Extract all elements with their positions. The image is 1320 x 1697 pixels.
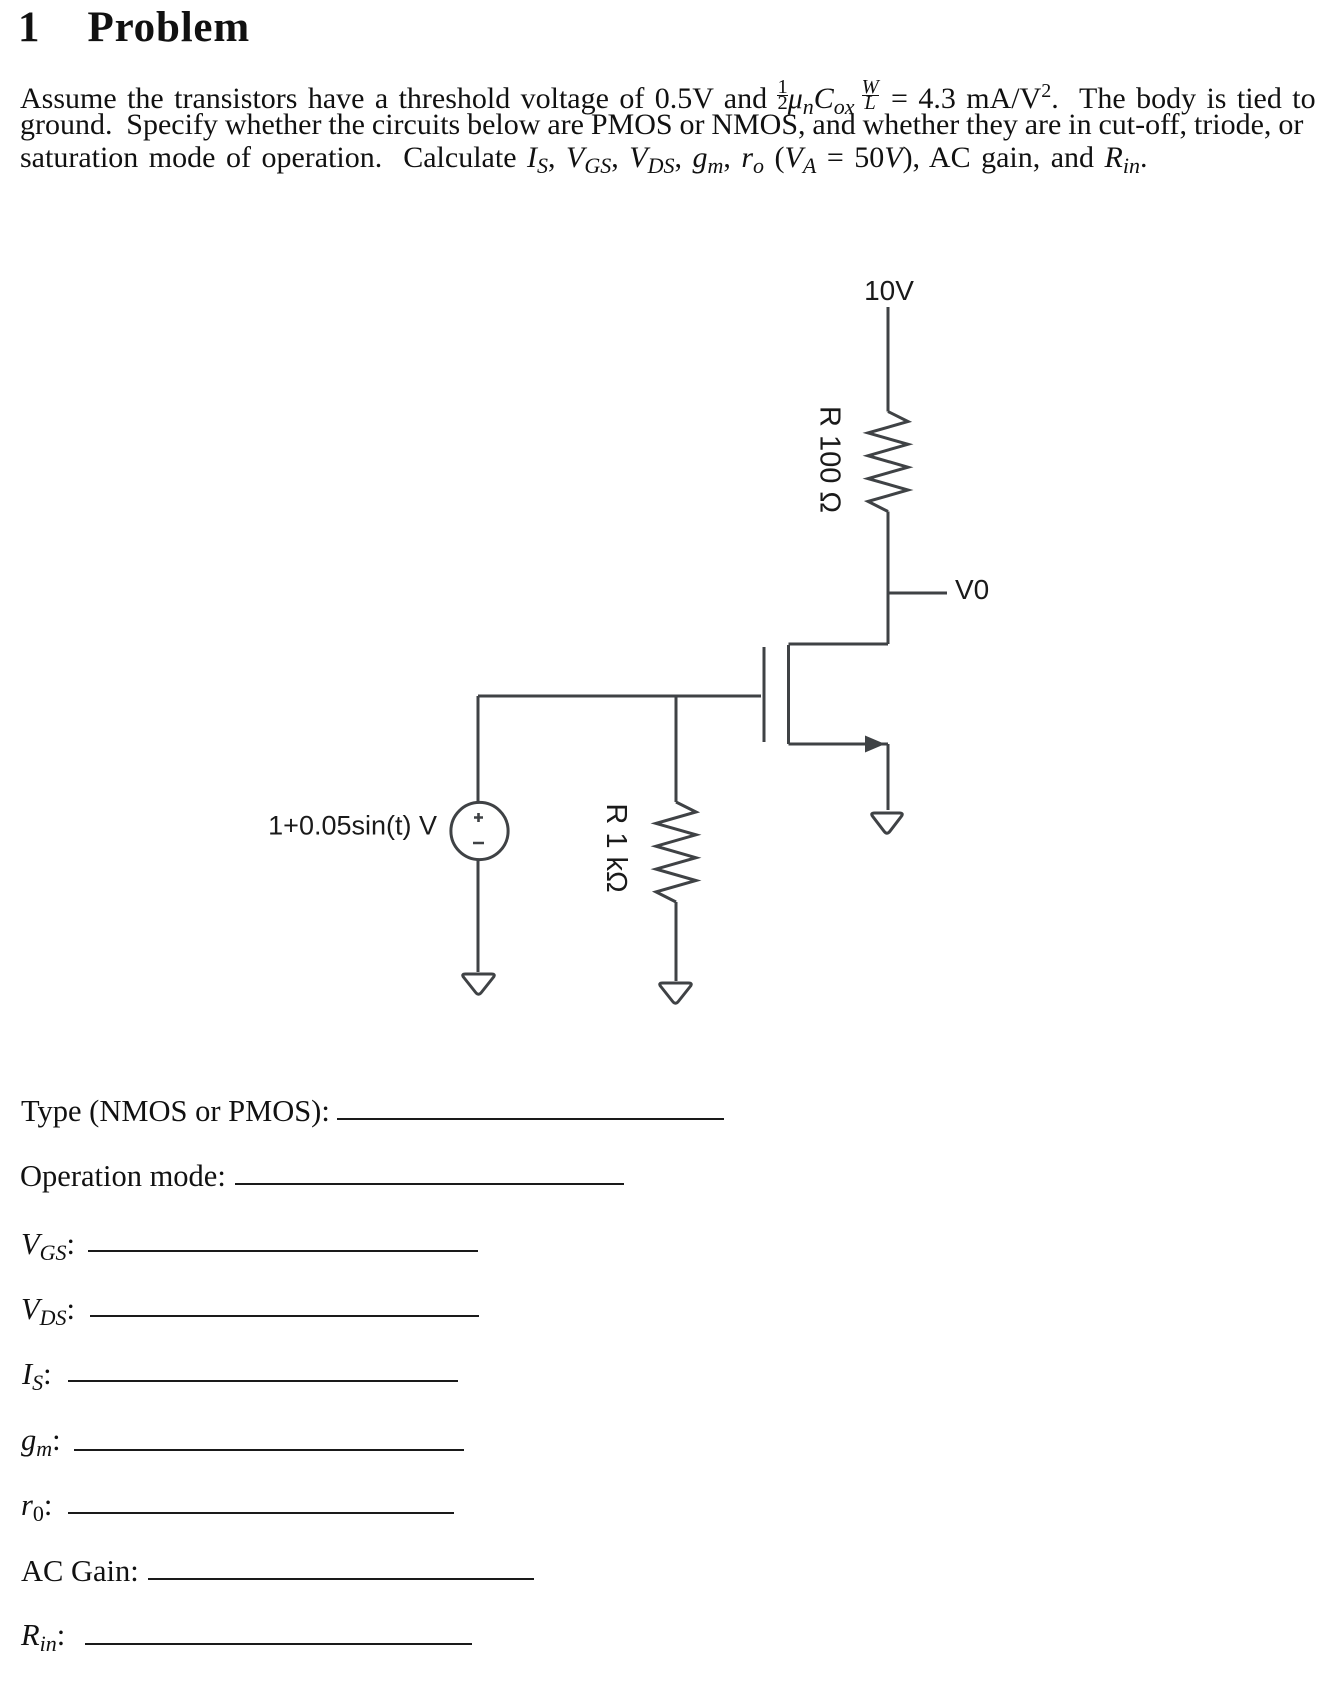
resistor R1 zigzag (R 100 ohm) xyxy=(868,412,908,512)
wire source down xyxy=(887,744,890,810)
wire gate junction down to R2 xyxy=(675,696,678,802)
svg-text:V0: V0 xyxy=(955,574,989,605)
resistor R2 zigzag (R 1 kohm) xyxy=(656,802,696,902)
wire R2 bottom xyxy=(675,902,678,981)
voltage source V1 plus sign xyxy=(474,813,483,822)
paragraph line 2 xyxy=(20,108,1303,142)
answer row: gm xyxy=(21,1425,61,1464)
svg-text:R 1 kΩ: R 1 kΩ xyxy=(600,803,632,892)
answer row: VDS xyxy=(21,1294,75,1333)
wire gate lead xyxy=(478,695,761,698)
paragraph line 1 xyxy=(20,74,1316,124)
answer row: IS xyxy=(22,1359,52,1398)
node V0 tick wire xyxy=(888,592,947,595)
voltage source V1 minus sign xyxy=(473,842,484,845)
ground under V1 xyxy=(463,974,495,994)
svg-text:1+0.05sin(t) V: 1+0.05sin(t) V xyxy=(268,811,437,841)
transistor M1 channel bar xyxy=(787,645,790,744)
svg-text:10V: 10V xyxy=(864,275,914,306)
answer row: Type xyxy=(21,1096,330,1126)
ground under source xyxy=(872,813,903,833)
wire V1 bottom xyxy=(477,861,480,973)
answer row: VGS xyxy=(21,1229,75,1268)
answer row: AC Gain xyxy=(21,1556,139,1586)
wire R1 bottom to drain corner xyxy=(887,512,890,645)
transistor M1 source arrowhead xyxy=(865,736,885,753)
svg-text:R 100 Ω: R 100 Ω xyxy=(814,406,846,513)
transistor M1 gate bar xyxy=(763,647,766,742)
wire source V1 top xyxy=(477,696,480,801)
answer row: r0 xyxy=(21,1490,52,1529)
section heading "1 Problem" xyxy=(18,6,250,49)
answer row: Rin xyxy=(21,1620,65,1659)
wire drain horizontal xyxy=(789,643,889,646)
transistor M1 source lead xyxy=(789,743,889,746)
ground under R2 xyxy=(660,983,692,1003)
answer row: Operation mode xyxy=(20,1161,226,1191)
paragraph line 3 xyxy=(20,141,1148,183)
wire VDD to R1 top xyxy=(887,307,890,412)
voltage source V1 circle xyxy=(451,802,508,859)
